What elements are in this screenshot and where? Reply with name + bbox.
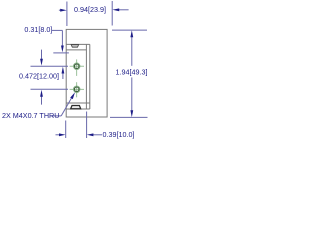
svg-text:0.94[23.9]: 0.94[23.9] — [74, 5, 106, 14]
svg-text:2X M4X0.7 THRU: 2X M4X0.7 THRU — [2, 111, 59, 120]
svg-text:0.31[8.0]: 0.31[8.0] — [24, 25, 52, 34]
svg-text:0.39[10.0]: 0.39[10.0] — [103, 130, 135, 139]
svg-text:1.94[49.3]: 1.94[49.3] — [116, 67, 148, 76]
svg-text:0.472[12.00]: 0.472[12.00] — [19, 72, 59, 81]
